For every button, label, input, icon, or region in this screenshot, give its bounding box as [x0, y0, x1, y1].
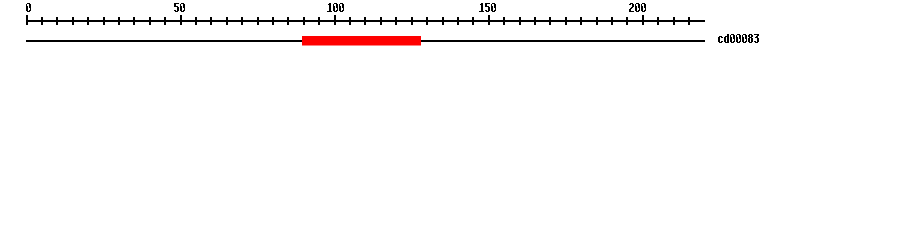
ruler label 150	[479, 3, 496, 12]
ruler major tick 200	[642, 15, 644, 25]
ruler major tick 100	[334, 15, 336, 25]
ruler major tick 150	[488, 15, 490, 25]
ruler label 100	[327, 3, 344, 12]
query sequence line	[26, 40, 705, 42]
ruler minor ticks every 5 residues	[41, 17, 690, 25]
ruler label 0	[26, 3, 31, 12]
domain hit bar cd00083 residues ~90-128	[302, 36, 421, 46]
domain label cd00083	[718, 34, 759, 43]
ruler label 200	[629, 3, 646, 12]
ruler major tick 50	[180, 15, 182, 25]
ruler label 50	[174, 3, 185, 12]
ruler major tick 0	[26, 15, 28, 25]
ruler line	[26, 20, 705, 22]
